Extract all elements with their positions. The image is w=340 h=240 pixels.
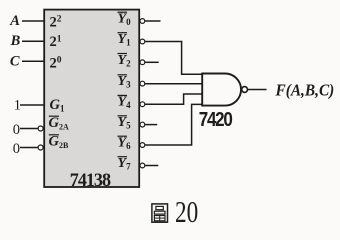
svg-text:F(A,B,C): F(A,B,C) <box>275 82 335 100</box>
svg-text:0: 0 <box>13 122 20 138</box>
svg-text:74138: 74138 <box>70 170 111 192</box>
svg-text:A: A <box>9 13 20 29</box>
svg-text:0: 0 <box>13 141 20 157</box>
svg-text:7420: 7420 <box>199 108 233 131</box>
svg-text:B: B <box>10 33 21 49</box>
svg-text:1: 1 <box>14 98 21 114</box>
svg-text:C: C <box>10 53 20 69</box>
svg-text:20: 20 <box>175 195 198 229</box>
